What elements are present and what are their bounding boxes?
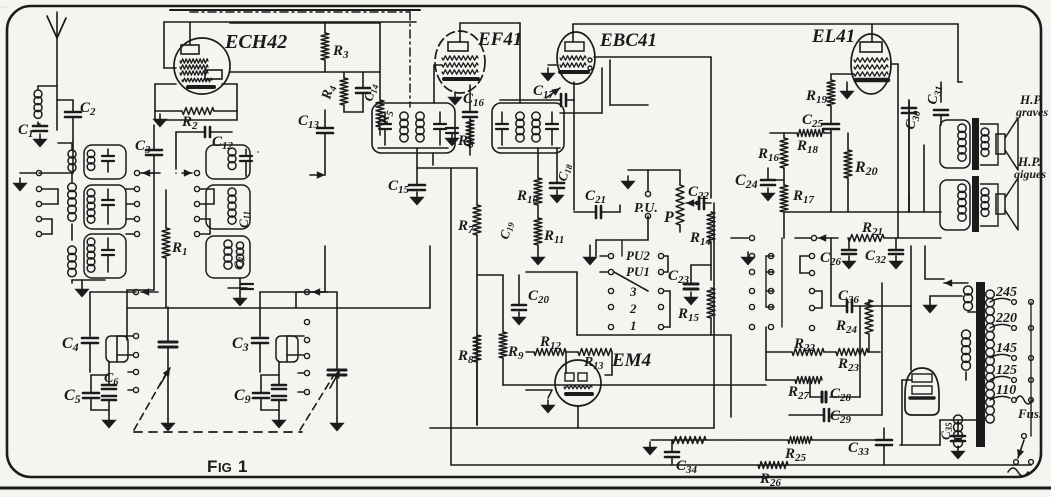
svg-text:F: F	[207, 457, 217, 476]
svg-text:2: 2	[629, 301, 637, 316]
svg-text:110: 110	[996, 383, 1016, 398]
svg-text:P: P	[663, 209, 674, 226]
svg-text:1: 1	[630, 318, 637, 333]
svg-text:graves: graves	[1015, 105, 1048, 119]
svg-text:aigues: aigues	[1014, 167, 1046, 181]
svg-text:125: 125	[996, 363, 1017, 378]
svg-text:3: 3	[629, 284, 637, 299]
svg-text:PU1: PU1	[626, 264, 650, 279]
svg-text:Fus.: Fus.	[1017, 406, 1042, 421]
svg-text:245: 245	[995, 285, 1017, 300]
svg-text:P.U.: P.U.	[634, 201, 658, 216]
svg-text:IG: IG	[218, 460, 232, 475]
svg-text:ECH42: ECH42	[224, 31, 287, 53]
svg-text:EM4: EM4	[611, 350, 651, 371]
svg-text:1: 1	[238, 457, 247, 476]
svg-text:EF41: EF41	[477, 29, 522, 50]
svg-text:PU2: PU2	[626, 248, 650, 263]
svg-text:EL41: EL41	[811, 26, 855, 47]
svg-text:145: 145	[996, 341, 1017, 356]
svg-text:EBC41: EBC41	[599, 30, 657, 51]
svg-text:220: 220	[995, 311, 1017, 326]
